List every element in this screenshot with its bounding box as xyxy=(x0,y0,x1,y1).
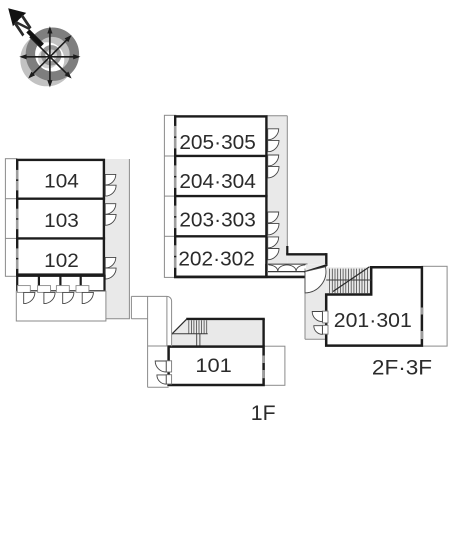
svg-text:102: 102 xyxy=(44,250,79,272)
balcony strip left of building xyxy=(5,159,16,277)
walkway inner edge xyxy=(166,296,168,346)
WALKWAYS xyxy=(131,296,171,346)
corridor (gray) right of left building xyxy=(105,159,130,319)
window room 103 xyxy=(16,209,19,230)
stairs diagonal xyxy=(333,267,370,292)
corridor left thin edge xyxy=(304,269,306,340)
window room 104 xyxy=(16,170,19,191)
compass E-W arrow xyxy=(22,28,79,85)
door arcs room 202 xyxy=(268,237,279,260)
window on 101 right wall xyxy=(262,356,265,379)
balcony divider 103/102 xyxy=(5,237,16,239)
room 201-301 outline xyxy=(326,267,422,345)
wall divider 205/204 xyxy=(174,155,268,157)
vestibule scallop doors xyxy=(269,265,306,271)
wall divider 203/202 xyxy=(174,235,268,237)
window on right wall upper xyxy=(421,308,424,340)
vestibule top rail xyxy=(268,263,308,265)
door arcs 101 opening left xyxy=(155,361,166,384)
compass big N arrow shaft xyxy=(26,29,44,47)
window room 203 xyxy=(174,206,177,229)
stairs diagonal edge xyxy=(172,319,188,335)
room 101 outline xyxy=(169,347,264,385)
svg-text:101: 101 xyxy=(195,355,232,377)
diagonal wall at entry xyxy=(304,265,326,272)
storage cells row below room 102 xyxy=(17,276,104,291)
svg-text:104: 104 xyxy=(44,170,79,192)
balcony divider 203/202 xyxy=(164,235,175,237)
corridor edge wall stub xyxy=(286,246,288,254)
svg-text:1F: 1F xyxy=(251,402,276,425)
compass big N arrowhead xyxy=(8,8,26,26)
entry door big arc xyxy=(305,267,326,293)
upper gray strip of 101 xyxy=(172,319,264,346)
door arcs room 104 into corridor xyxy=(105,174,116,196)
connecting bridge gray xyxy=(287,254,326,264)
stairs mid landing rail xyxy=(326,279,371,281)
door arcs room 103 into corridor xyxy=(105,204,116,226)
wall divider 104/103 xyxy=(16,197,105,199)
entry corridor gray of right building xyxy=(305,265,326,339)
window room 102 xyxy=(16,248,19,269)
compass light inner ring xyxy=(40,50,56,66)
strip top wall xyxy=(186,318,264,320)
svg-text:103: 103 xyxy=(44,210,79,232)
window room 204 xyxy=(174,165,177,188)
room wall right edge down to bottom xyxy=(265,264,267,278)
porch door arcs xyxy=(24,292,94,303)
svg-text:202·302: 202·302 xyxy=(178,248,255,271)
stairwell gray xyxy=(326,267,371,293)
bridge corner wall down xyxy=(325,253,327,266)
COMPASS xyxy=(8,8,81,87)
door frame rects 201 xyxy=(322,311,328,334)
vestibule white area xyxy=(269,265,306,272)
balcony strip left of middle building xyxy=(164,115,175,277)
compass arrowheads xyxy=(19,26,80,87)
room block outline (104/103/102) xyxy=(17,160,104,275)
door frame rects 101 xyxy=(166,361,171,384)
bridge top wall xyxy=(286,253,326,255)
balcony divider 104/103 xyxy=(5,198,16,200)
svg-text:203·303: 203·303 xyxy=(179,209,256,232)
window room 202 xyxy=(174,245,177,267)
BOTTOM BUILDING xyxy=(148,319,285,388)
corridor (gray) right of middle building xyxy=(266,116,287,265)
svg-text:2F·3F: 2F·3F xyxy=(372,357,432,380)
door arcs room 203 xyxy=(268,212,279,235)
svg-text:204·304: 204·304 xyxy=(179,170,256,193)
stair stringers xyxy=(196,334,198,347)
compass dark inner ring xyxy=(43,47,59,63)
entrance porch box xyxy=(16,291,106,321)
wall divider 103/102 xyxy=(16,237,105,239)
MIDDLE BUILDING xyxy=(164,115,326,277)
LEFT BUILDING xyxy=(5,159,129,321)
window room 205 xyxy=(174,126,177,148)
corridor left of 101 xyxy=(147,346,149,387)
svg-text:205·305: 205·305 xyxy=(179,131,256,154)
balcony divider 204/203 xyxy=(164,195,175,197)
stairs 101 hatch xyxy=(189,320,207,334)
corridor extension box xyxy=(130,296,132,318)
door arcs room 102 into corridor xyxy=(105,257,116,279)
vestibule bottom rail xyxy=(268,271,305,273)
porch thresholds xyxy=(17,286,89,293)
compass dark outer ring xyxy=(30,32,74,76)
stairs bottom rail xyxy=(172,333,207,335)
room block outline (205..202) xyxy=(175,116,266,277)
svg-text:201·301: 201·301 xyxy=(334,309,412,332)
wall divider 204/203 xyxy=(174,195,268,197)
compass light outer ring xyxy=(25,38,69,82)
stairs right building xyxy=(330,269,368,294)
door arcs room 205 xyxy=(268,129,279,152)
door arcs 201 opening left xyxy=(312,312,322,335)
door arcs room 204 xyxy=(268,155,279,178)
balcony divider 205/204 xyxy=(164,155,175,157)
walkway outer edge with rounded corner xyxy=(131,296,171,346)
RIGHT BUILDING xyxy=(304,264,447,346)
strip right wall xyxy=(262,319,264,347)
balcony right of 101 xyxy=(264,346,285,385)
cell bottom rail xyxy=(17,290,104,292)
balcony right of 201 xyxy=(422,266,447,346)
building bottom wall extended xyxy=(174,276,305,279)
corridor bottom thin edge xyxy=(305,338,326,340)
walkway left edge xyxy=(147,296,149,346)
